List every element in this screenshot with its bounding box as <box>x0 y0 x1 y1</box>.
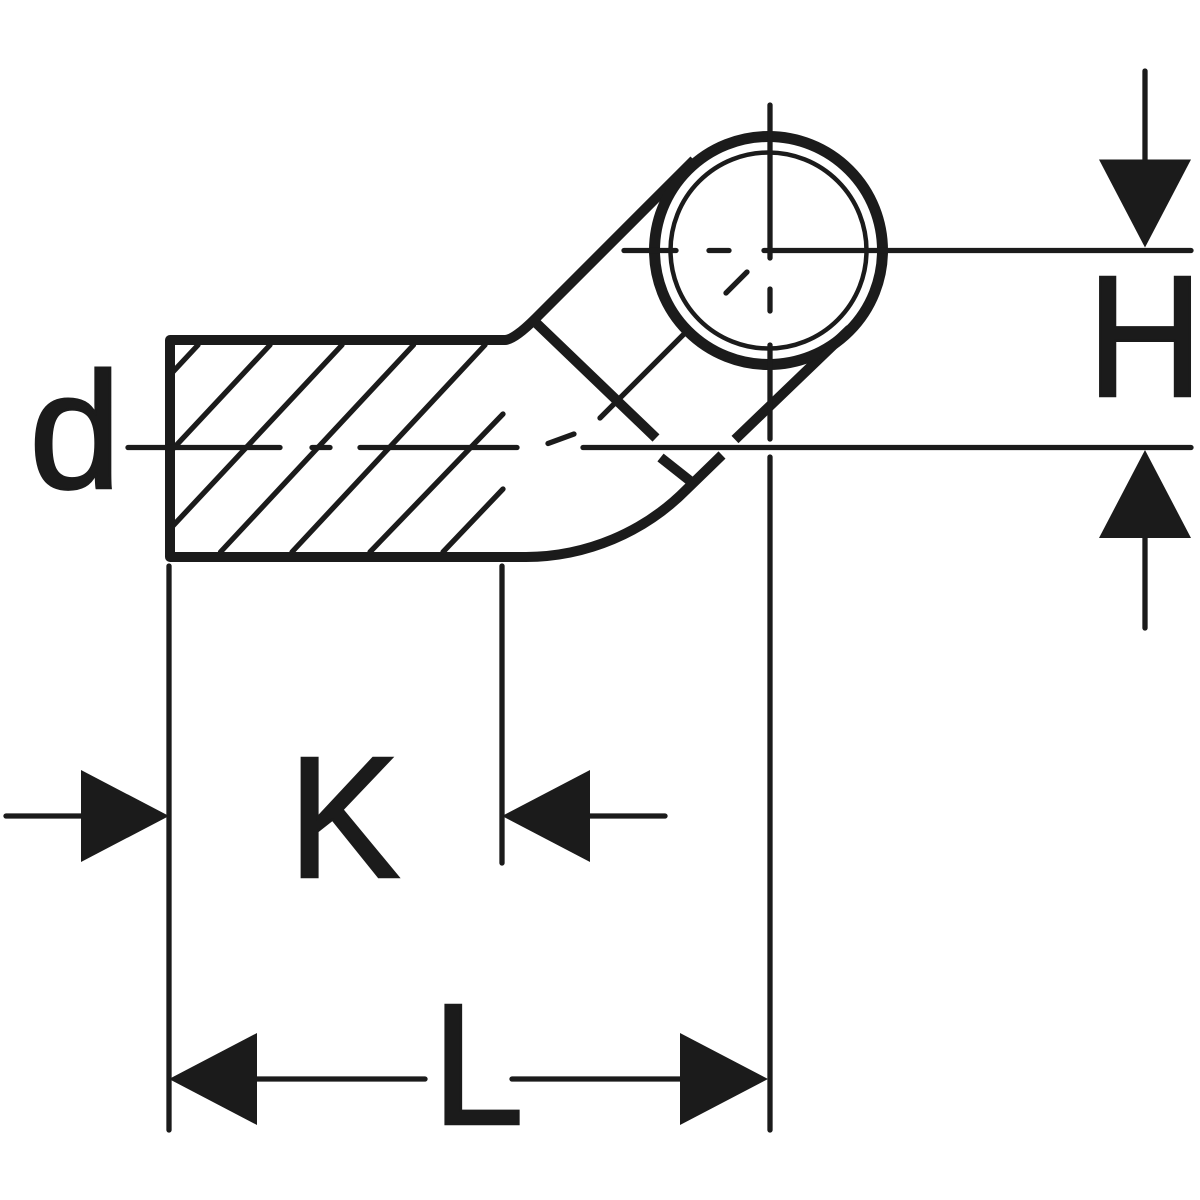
svg-text:L: L <box>432 967 524 1161</box>
svg-text:d: d <box>29 339 121 524</box>
svg-text:H: H <box>1087 239 1200 433</box>
svg-text:K: K <box>288 720 400 914</box>
